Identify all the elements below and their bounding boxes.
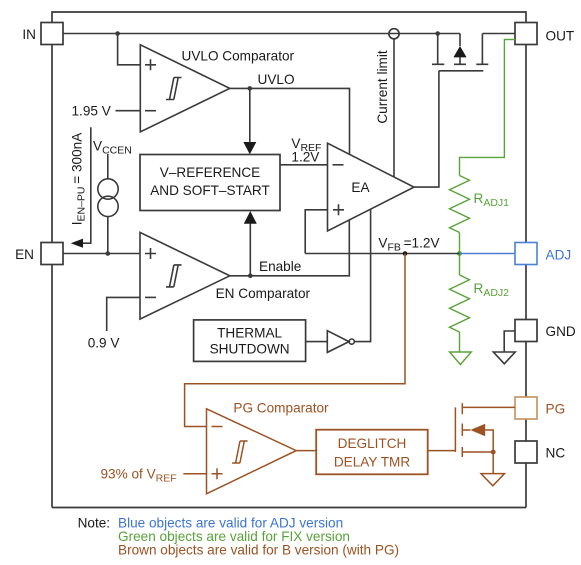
svg-text:GND: GND [546,324,576,339]
note text [78,516,399,558]
chip boundary right border [525,45,527,508]
op-amp U4 PG comparator [207,401,330,494]
chip boundary top border [52,12,526,23]
node on IN rail to UVLO [115,31,120,36]
wire EA + input wrap to VFB [305,210,327,254]
wire VREF to EA - input [280,164,328,166]
svg-text:THERMAL: THERMAL [217,325,282,340]
pin OUT [515,23,574,45]
svg-text:SHUTDOWN: SHUTDOWN [210,342,290,357]
wire IN rail [63,33,460,35]
svg-text:EN: EN [15,247,34,262]
op-amp U1 UVLO comparator [140,45,294,132]
transistor Q1 pass PMOS [432,34,488,71]
node UVLO [248,86,253,91]
svg-text:1.95 V: 1.95 V [72,104,111,119]
wire 0.9V to EN comparator - input [107,297,140,331]
svg-text:AND SOFT–START: AND SOFT–START [150,183,270,198]
current limit sense circle [375,29,399,177]
svg-text:OUT: OUT [546,29,575,44]
svg-text:V–REFERENCE: V–REFERENCE [160,165,260,180]
wire RADJ2 to ground (green) [459,332,461,352]
pin PG [515,397,565,419]
block THERMAL SHUTDOWN [194,320,306,362]
wire VFB rail [305,253,459,255]
pin IN [22,23,63,45]
transistor Q2 PG open-drain NMOS [455,403,515,457]
resistor RADJ2 [450,275,510,332]
wire thermal to inverter [306,341,328,343]
svg-text:0.9 V: 0.9 V [88,336,120,351]
body diode of Q1 [453,34,466,65]
resistor RADJ1 [450,176,510,233]
wire UVLO output [230,88,350,154]
svg-text:UVLO Comparator: UVLO Comparator [182,49,295,64]
svg-text:Enable: Enable [259,259,301,274]
wire EN rail [63,253,140,255]
svg-text:PG Comparator: PG Comparator [233,401,329,416]
svg-text:Current limit: Current limit [375,50,390,123]
wire Q1 drain to OUT [482,33,515,35]
node Enable [248,274,253,279]
op-amp U2 error amplifier EA [328,143,415,231]
wire UVLO + input [118,34,141,65]
wire PG comparator to deglitch [296,450,316,452]
svg-text:1.2V: 1.2V [291,150,319,165]
chip boundary left border [51,45,53,508]
svg-text:ADJ: ADJ [546,248,572,263]
ground black arrow [493,352,515,364]
node EN junction [106,251,111,256]
pin ADJ [515,243,571,265]
wire inverter to EA gate [354,209,370,341]
wire RADJ1 to VFB node (green) [459,233,461,254]
wire UVLO down-arrow into V-reference [243,88,256,154]
wire VFB node to RADJ2 (green) [459,254,461,276]
wire EA output to pass gate [414,71,439,187]
wire GND pin to ground [504,331,515,352]
svg-text:Note:: Note: [78,516,111,531]
svg-text:EA: EA [351,180,370,195]
wire Q2 source to ground (brown) [492,452,494,474]
svg-text:EN Comparator: EN Comparator [216,286,311,301]
wire VFB to ADJ pin (blue) [460,253,516,255]
block V-REFERENCE AND SOFT-START [140,155,280,211]
current source IEN-PU [93,139,132,254]
svg-text:NC: NC [546,446,566,461]
wire 93% VREF stub [183,473,206,475]
node VFB green junction [457,251,462,256]
inverter buffer [327,331,354,353]
wire EN comparator output Enable [230,220,349,276]
node VFB to PG comparator [403,251,408,256]
wire 1.95V to UVLO - input [116,110,141,112]
pin EN [15,243,63,265]
ground brown arrow [481,474,505,486]
label IEN-PU = 300nA with arrow to EN [70,127,91,248]
svg-text:UVLO: UVLO [258,72,295,87]
label VREF 1.2V [291,136,321,165]
pin GND [515,320,576,342]
ground green arrow [450,352,472,365]
pin NC [515,441,565,463]
wire OUT to RADJ1 (green) [460,40,516,176]
wire VFB to PG comparator (brown) [185,254,405,427]
svg-text:DELAY TMR: DELAY TMR [334,455,410,470]
chip boundary bottom border [52,507,526,509]
op-amp U3 EN comparator [140,232,311,319]
node on IN rail at Q1 source [435,31,440,36]
svg-text:PG: PG [546,402,566,417]
block DEGLITCH DELAY TMR [316,430,428,475]
svg-text:Brown objects are valid for B: Brown objects are valid for B version (w… [118,543,399,558]
svg-text:DEGLITCH: DEGLITCH [338,436,407,451]
wire deglitch to Q2 gate [428,450,456,452]
wire enable up-arrow into V-reference [244,211,257,276]
svg-text:IN: IN [22,27,36,42]
